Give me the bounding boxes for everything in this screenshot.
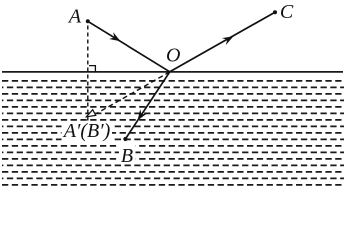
svg-text:B: B	[121, 145, 133, 167]
point B dot	[123, 137, 127, 141]
ray A to O (incident ray)	[88, 21, 170, 72]
arrowhead on ray O-B	[138, 109, 147, 120]
arrowhead on ray O-C	[222, 36, 234, 45]
water surface line	[2, 71, 343, 73]
ray O to C (reflected ray)	[170, 12, 275, 72]
white knockout behind A'(B') label	[62, 121, 113, 142]
svg-text:A: A	[67, 6, 82, 28]
svg-text:O: O	[166, 44, 180, 66]
open arrowhead at A' end of dashed extension	[86, 110, 95, 117]
svg-text:A′(B′): A′(B′)	[62, 120, 111, 142]
ray O to B (refracted ray)	[125, 72, 169, 139]
white knockout behind B label	[119, 144, 136, 163]
water hatching (dashed fill below surface)	[2, 81, 344, 185]
arrowhead on ray A-O	[109, 32, 120, 41]
svg-text:C: C	[280, 1, 294, 23]
point A dot	[86, 19, 90, 23]
point C dot	[273, 10, 277, 14]
right-angle mark at foot of normal	[89, 66, 95, 72]
wire: dashed normal line A to A'	[87, 26, 89, 123]
dashed backward extension of CO toward A'	[96, 72, 170, 114]
